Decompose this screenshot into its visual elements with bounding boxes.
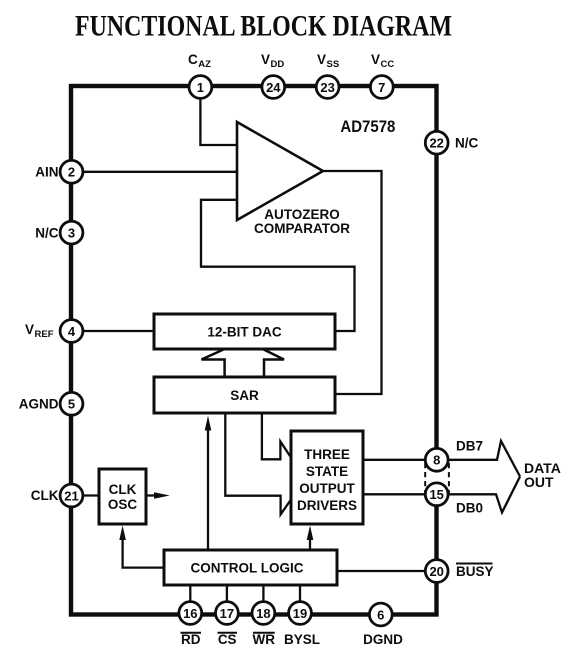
- pin 2 AIN: [35, 160, 83, 183]
- dashed data bus box: [425, 460, 449, 495]
- pin 3 N/C: [35, 221, 83, 244]
- svg-text:12-BIT DAC: 12-BIT DAC: [207, 325, 282, 340]
- svg-text:SS: SS: [327, 59, 340, 70]
- svg-text:6: 6: [377, 607, 384, 622]
- wire control logic to clock oscillator arrow: [123, 534, 164, 568]
- svg-text:STATE: STATE: [306, 464, 348, 479]
- svg-text:CLK: CLK: [31, 488, 59, 503]
- svg-text:BYSL: BYSL: [284, 632, 320, 647]
- svg-text:AIN: AIN: [35, 165, 58, 180]
- wire control logic to CS pin: [226, 585, 228, 613]
- svg-text:OSC: OSC: [108, 497, 138, 512]
- wire control logic to drivers arrow: [309, 534, 311, 551]
- wire control logic to BUSY pin: [337, 570, 436, 572]
- svg-text:CC: CC: [381, 59, 395, 70]
- three state output drivers: [291, 431, 363, 524]
- svg-text:COMPARATOR: COMPARATOR: [254, 221, 350, 236]
- wire AIN to comparator input: [71, 171, 237, 173]
- svg-text:23: 23: [320, 80, 334, 95]
- data out bus arrow: [449, 441, 521, 477]
- svg-text:REF: REF: [35, 329, 54, 340]
- pin 6 DGND: [363, 603, 403, 647]
- clock oscillator: [99, 469, 146, 524]
- svg-text:RD: RD: [181, 632, 201, 647]
- svg-text:CLK: CLK: [109, 482, 137, 497]
- chip boundary: [71, 86, 437, 615]
- pin 17 CS: [216, 602, 239, 647]
- svg-text:THREE: THREE: [304, 447, 350, 462]
- svg-text:V: V: [371, 52, 380, 67]
- svg-text:DGND: DGND: [363, 632, 403, 647]
- wire CAZ pin1 to comparator input: [200, 88, 237, 145]
- svg-text:21: 21: [64, 488, 78, 503]
- svg-text:DB7: DB7: [456, 439, 483, 454]
- clock oscillator output arrow: [146, 494, 156, 496]
- svg-text:WR: WR: [253, 632, 276, 647]
- pin 7 VCC: [370, 52, 394, 98]
- svg-text:DD: DD: [271, 59, 285, 70]
- svg-text:5: 5: [68, 397, 75, 412]
- svg-text:20: 20: [429, 564, 443, 579]
- svg-text:V: V: [317, 52, 326, 67]
- wire comparator output to SAR: [321, 171, 382, 394]
- svg-text:DB0: DB0: [456, 501, 483, 516]
- svg-text:V: V: [25, 322, 34, 337]
- svg-text:CS: CS: [218, 632, 237, 647]
- svg-text:24: 24: [266, 80, 281, 95]
- svg-text:15: 15: [429, 487, 443, 502]
- pin 5 AGND: [19, 392, 83, 415]
- svg-text:4: 4: [68, 324, 76, 339]
- SAR register: [154, 377, 335, 413]
- wire drivers to DB0 pin: [363, 493, 436, 495]
- pin 8 DB7: [425, 439, 483, 472]
- pin 23 VSS: [316, 52, 339, 98]
- wire drivers to DB7 pin: [363, 459, 436, 461]
- svg-text:22: 22: [429, 136, 443, 151]
- control logic: [164, 550, 337, 585]
- svg-text:AZ: AZ: [198, 59, 211, 70]
- svg-text:BUSY: BUSY: [456, 564, 494, 579]
- svg-text:3: 3: [68, 225, 75, 240]
- svg-text:17: 17: [220, 606, 234, 621]
- pin 4 VREF: [25, 320, 83, 343]
- svg-text:16: 16: [183, 606, 197, 621]
- wire control logic to BYSL pin: [299, 585, 301, 613]
- wire VREF to DAC: [71, 330, 154, 332]
- svg-text:19: 19: [293, 606, 307, 621]
- op-amp U1 autozero comparator: [237, 122, 323, 220]
- pin 20 BUSY: [425, 560, 493, 583]
- svg-text:CONTROL LOGIC: CONTROL LOGIC: [191, 561, 304, 576]
- svg-text:AUTOZERO: AUTOZERO: [264, 207, 340, 222]
- pin 21 CLK: [31, 484, 83, 507]
- svg-text:OUT: OUT: [524, 474, 554, 490]
- border gap between DB pins: [432, 461, 442, 493]
- pin 18 WR: [252, 602, 275, 647]
- svg-text:V: V: [261, 52, 270, 67]
- svg-text:FUNCTIONAL BLOCK DIAGRAM: FUNCTIONAL BLOCK DIAGRAM: [75, 9, 452, 42]
- wire control logic to WR pin: [262, 585, 264, 613]
- pin 24 VDD: [261, 52, 285, 98]
- wire CLK pin to oscillator: [71, 494, 99, 496]
- wire control logic to RD pin: [189, 585, 191, 613]
- wire control logic to SAR arrow: [207, 424, 209, 551]
- pin 1 CAZ: [188, 52, 212, 98]
- svg-text:N/C: N/C: [455, 136, 479, 151]
- pin 19 BYSL: [284, 602, 320, 647]
- pin 15 DB0: [425, 483, 483, 516]
- svg-text:SAR: SAR: [230, 388, 259, 403]
- wire SAR to drivers upper bus with break symbol: [262, 413, 291, 459]
- svg-text:N/C: N/C: [35, 225, 59, 240]
- svg-text:C: C: [188, 52, 198, 67]
- svg-text:8: 8: [433, 453, 440, 468]
- svg-text:OUTPUT: OUTPUT: [299, 481, 355, 496]
- pin 22 N/C: [425, 131, 478, 154]
- wire DAC output feedback to comparator input: [201, 200, 355, 331]
- wire SAR to drivers lower bus with break symbol: [225, 413, 291, 515]
- svg-text:2: 2: [68, 165, 75, 180]
- svg-text:18: 18: [256, 606, 270, 621]
- svg-text:7: 7: [378, 80, 385, 95]
- svg-text:AGND: AGND: [19, 397, 59, 412]
- svg-text:AD7578: AD7578: [340, 118, 395, 136]
- pin 16 RD: [179, 602, 202, 647]
- svg-text:DRIVERS: DRIVERS: [297, 498, 357, 513]
- bus arrow SAR to DAC: [202, 340, 285, 378]
- svg-text:1: 1: [197, 80, 204, 95]
- 12-bit DAC: [154, 314, 335, 349]
